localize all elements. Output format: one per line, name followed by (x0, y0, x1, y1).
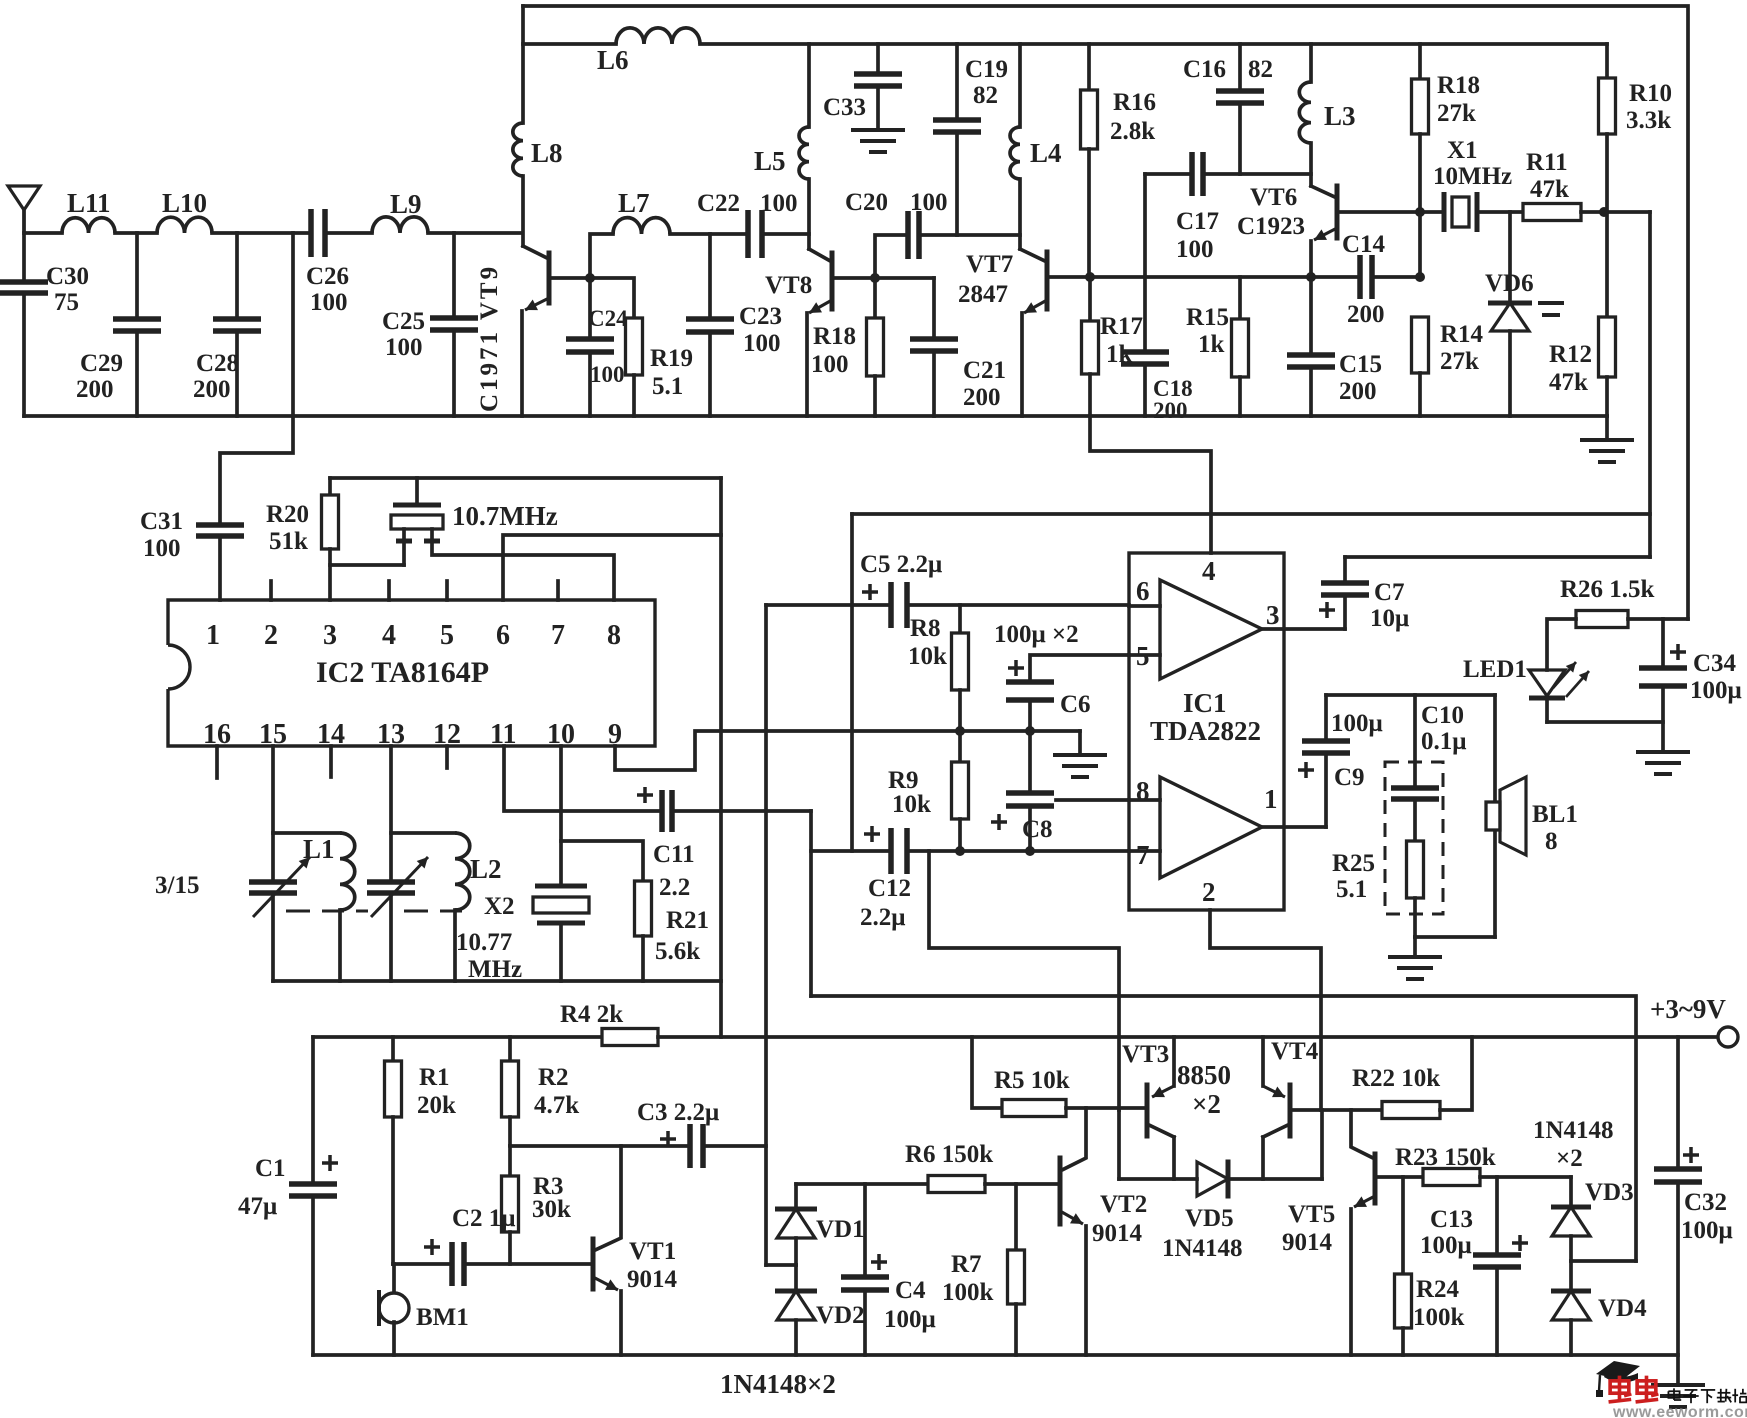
svg-text:LED1: LED1 (1463, 656, 1527, 683)
svg-text:R5 10k: R5 10k (994, 1067, 1070, 1094)
IC1 TDA2822 box (1129, 553, 1284, 910)
svg-text:10k: 10k (908, 643, 947, 670)
dashed box around C10/R25 (1385, 762, 1443, 914)
svg-text:R14: R14 (1440, 321, 1484, 348)
IC2 pin stubs bottom (nc) (215, 746, 219, 778)
svg-text:10.77: 10.77 (456, 929, 512, 956)
svg-text:C16: C16 (1183, 56, 1226, 83)
resistor R16 (1087, 44, 1091, 90)
inductor L9 (372, 217, 428, 233)
svg-text:82: 82 (1248, 56, 1273, 83)
svg-text:C8: C8 (1022, 816, 1053, 843)
wire: VT7 base bias line (1090, 275, 1311, 279)
svg-text:100: 100 (910, 189, 948, 216)
transistor VT8 (830, 253, 835, 309)
speaker BL1 (1493, 695, 1497, 937)
svg-text:10μ: 10μ (1370, 605, 1409, 632)
svg-text:R21: R21 (666, 907, 709, 934)
svg-text:4: 4 (1202, 556, 1216, 586)
capacitor C3 (690, 1124, 703, 1168)
wire: L7 branch (590, 234, 613, 278)
wire: long vertical from filter top (719, 478, 723, 1037)
capacitor C30 (22, 210, 26, 282)
svg-text:L4: L4 (1030, 138, 1062, 168)
svg-text:1N4148: 1N4148 (1533, 1117, 1614, 1144)
diode VD4 (1569, 1261, 1573, 1291)
svg-text:R10: R10 (1629, 80, 1672, 107)
svg-text:8850: 8850 (1177, 1060, 1231, 1090)
svg-text:L3: L3 (1324, 101, 1356, 131)
svg-text:C33: C33 (823, 94, 866, 121)
capacitor C18 (1143, 174, 1147, 352)
bottom ground rail (313, 1353, 1678, 1357)
svg-text:100: 100 (590, 362, 625, 387)
svg-text:4: 4 (382, 620, 396, 651)
svg-text:200: 200 (193, 376, 231, 403)
inductor L11 (62, 218, 115, 233)
svg-text:6: 6 (496, 620, 510, 651)
svg-text:30k: 30k (532, 1196, 571, 1223)
resistor R22 (1382, 1102, 1440, 1119)
svg-text:5: 5 (440, 620, 454, 651)
svg-text:100μ: 100μ (884, 1306, 936, 1333)
svg-text:C4: C4 (895, 1277, 926, 1304)
wire pin2 down to VT4 base (1210, 910, 1321, 1110)
resistor R6 (928, 1176, 985, 1193)
op-amp A (top) (1160, 580, 1262, 679)
capacitor C4 (863, 1184, 867, 1277)
svg-text:75: 75 (54, 289, 79, 316)
svg-text:8: 8 (1545, 828, 1558, 855)
svg-text:C7: C7 (1374, 579, 1405, 606)
svg-text:2.2μ: 2.2μ (860, 904, 905, 931)
svg-text:9014: 9014 (1282, 1229, 1333, 1256)
svg-text:R18: R18 (1437, 72, 1480, 99)
svg-text:R20: R20 (266, 501, 309, 528)
ceramic filter 10.7MHz (330, 476, 721, 480)
svg-text:C6: C6 (1060, 691, 1091, 718)
svg-text:2: 2 (264, 620, 278, 651)
svg-text:100μ: 100μ (1331, 710, 1383, 737)
svg-text:VD2: VD2 (816, 1302, 865, 1329)
svg-text:×2: ×2 (1556, 1145, 1583, 1172)
capacitor C21 (875, 276, 934, 280)
wire: clipper top line to R6 (796, 1182, 928, 1186)
svg-text:100k: 100k (1413, 1304, 1465, 1331)
resistor R10 (1605, 44, 1609, 78)
svg-text:C5 2.2μ: C5 2.2μ (860, 551, 942, 578)
svg-text:+3~9V: +3~9V (1650, 994, 1726, 1024)
svg-text:200: 200 (1153, 398, 1188, 423)
wire: pin9 net vertical (764, 605, 768, 1265)
capacitor C10 (1413, 695, 1417, 788)
ground rail of RF section (24, 414, 1607, 418)
svg-text:47μ: 47μ (238, 1193, 277, 1220)
resistor R5 (972, 1037, 1002, 1108)
svg-text:C29: C29 (80, 350, 123, 377)
wire: detector output to AF (1648, 212, 1652, 557)
svg-text:2: 2 (1202, 877, 1216, 907)
transistor VT1 (9014) (591, 1239, 596, 1289)
svg-text:1N4148: 1N4148 (1162, 1235, 1243, 1262)
svg-text:TDA2822: TDA2822 (1150, 716, 1261, 746)
svg-text:10.7MHz: 10.7MHz (452, 501, 558, 531)
svg-text:L8: L8 (531, 138, 563, 168)
svg-text:10k: 10k (892, 791, 931, 818)
svg-text:VD5: VD5 (1185, 1205, 1234, 1232)
svg-text:R18: R18 (813, 323, 856, 350)
resistor R25 (1413, 799, 1417, 841)
svg-text:100k: 100k (942, 1279, 994, 1306)
antenna (8, 186, 40, 233)
node VT9 base junction (585, 273, 595, 283)
wire: pin2 net / y996 line (811, 996, 1636, 1261)
wire pin8 stub (1056, 798, 1129, 802)
resistor R1 (391, 1037, 395, 1061)
resistor R7 (1014, 1184, 1018, 1250)
wire: pin9 net to clipper (766, 1263, 796, 1267)
svg-text:C11: C11 (653, 841, 695, 868)
wire: pin10 / crystal X2 column (559, 746, 563, 886)
svg-text:100μ: 100μ (1420, 1232, 1472, 1259)
svg-text:X2: X2 (484, 893, 515, 920)
IC2 pin stubs top (269, 581, 273, 600)
svg-text:L10: L10 (162, 188, 207, 218)
inductor L4 (1018, 44, 1022, 127)
transistor VT4 (8850) (1288, 1085, 1293, 1136)
svg-text:82: 82 (973, 82, 998, 109)
capacitor C20 (875, 235, 908, 278)
svg-text:VT7: VT7 (966, 251, 1013, 278)
svg-text:C1923: C1923 (1237, 213, 1305, 240)
svg-text:R9: R9 (888, 767, 919, 794)
inductor L8 (513, 123, 523, 176)
resistor R23 (1375, 1175, 1423, 1179)
resistor R14 (1412, 317, 1429, 373)
svg-text:R16: R16 (1113, 89, 1156, 116)
wire LED bottom to C34 (1547, 720, 1663, 724)
capacitor C12 (891, 828, 907, 874)
capacitor C29 (135, 233, 139, 319)
wire: main RF line (24, 231, 62, 235)
capacitor C22 (748, 210, 762, 258)
svg-text:200: 200 (963, 384, 1001, 411)
svg-text:C12: C12 (868, 875, 911, 902)
svg-text:MHz: MHz (468, 956, 522, 983)
svg-text:www.eeworm.com: www.eeworm.com (1612, 1404, 1747, 1418)
capacitor C15 (1309, 277, 1313, 355)
svg-text:IC2 TA8164P: IC2 TA8164P (316, 656, 489, 689)
svg-text:L5: L5 (754, 146, 786, 176)
wire L8 to VT9 collector (521, 176, 525, 246)
wire: C5 input line (766, 603, 891, 607)
svg-text:BL1: BL1 (1532, 801, 1578, 828)
wire: pin9 audio takeoff (615, 731, 1080, 770)
svg-text:R4 2k: R4 2k (560, 1001, 623, 1028)
svg-text:100: 100 (385, 334, 423, 361)
svg-text:C34: C34 (1693, 650, 1737, 677)
resistor R26 (1576, 611, 1628, 628)
resistor R18 (27k) (1418, 44, 1422, 79)
svg-text:C26: C26 (306, 263, 349, 290)
resistor R12 (1599, 317, 1616, 377)
wire: speaker net top (1326, 693, 1495, 697)
capacitor C24 (588, 278, 592, 339)
transistor VT3 (8850) (1145, 1085, 1150, 1136)
transistor VT5 (9014) (1373, 1154, 1378, 1203)
capacitor C25 (452, 233, 456, 318)
resistor R9 (958, 731, 962, 762)
wire: tank ground rail (273, 979, 721, 983)
svg-text:C10: C10 (1421, 702, 1464, 729)
resistor R8 (958, 605, 962, 633)
svg-text:R2: R2 (538, 1064, 569, 1091)
inductor L10 (157, 217, 212, 233)
tank L1 with trimmer (271, 746, 275, 882)
capacitor C5 (891, 582, 907, 628)
svg-text:R6 150k: R6 150k (905, 1141, 993, 1168)
wire: left branch with C1 (311, 1037, 315, 1184)
svg-text:VT2: VT2 (1100, 1191, 1147, 1218)
svg-text:C13: C13 (1430, 1206, 1473, 1233)
varactor VD6 (1508, 212, 1512, 303)
svg-text:C30: C30 (46, 263, 89, 290)
svg-text:R24: R24 (1416, 1276, 1460, 1303)
capacitor C8 (1028, 731, 1032, 793)
svg-text:R12: R12 (1549, 341, 1592, 368)
svg-text:VD1: VD1 (816, 1216, 865, 1243)
svg-text:2.8k: 2.8k (1110, 118, 1155, 145)
wire pin3 out to C7 (1262, 627, 1345, 631)
svg-text:47k: 47k (1530, 176, 1569, 203)
wire: pin11 to C11 line (504, 746, 662, 811)
svg-text:5.1: 5.1 (1336, 876, 1367, 903)
resistor R17 (1088, 277, 1092, 321)
svg-text:R11: R11 (1526, 149, 1568, 176)
svg-text:R23 150k: R23 150k (1395, 1144, 1496, 1171)
svg-text:3: 3 (323, 620, 337, 651)
svg-text:BM1: BM1 (416, 1304, 469, 1331)
transistor VT7 (2847) (1045, 252, 1050, 309)
resistor R15 (1238, 277, 1242, 319)
svg-text:51k: 51k (269, 528, 308, 555)
svg-text:VD3: VD3 (1585, 1179, 1634, 1206)
transistor VT9 (C1971) (547, 253, 552, 303)
inductor L3 (1309, 44, 1313, 82)
diode VD1 (794, 1184, 798, 1209)
capacitor C17 (1145, 172, 1192, 176)
wire: top supply rail (523, 6, 1688, 619)
wire pin1 out to C9 (1262, 825, 1326, 829)
svg-text:VD4: VD4 (1598, 1295, 1647, 1322)
svg-text:4.7k: 4.7k (534, 1092, 579, 1119)
svg-text:8: 8 (607, 620, 621, 651)
svg-text:5.1: 5.1 (652, 373, 683, 400)
svg-text:100: 100 (811, 351, 849, 378)
diode VD3 (1569, 1177, 1573, 1207)
capacitor C34 (1661, 619, 1665, 668)
svg-text:L2: L2 (470, 854, 502, 884)
resistor R21 (561, 841, 643, 881)
capacitor C16 (1238, 44, 1242, 91)
svg-text:VT4: VT4 (1271, 1038, 1319, 1065)
watermark site name (drawn glyphs) (1668, 1391, 1679, 1398)
ground at C6/C8 (1078, 731, 1082, 755)
LED LED1 (1547, 619, 1576, 670)
wire: pin6 loop (503, 535, 721, 600)
svg-text:VT6: VT6 (1250, 184, 1297, 211)
wire: VT4 base line to R22 (1290, 1108, 1382, 1112)
svg-text:R17: R17 (1100, 313, 1143, 340)
svg-text:C1: C1 (255, 1155, 286, 1182)
wire left jog to VT3 base (929, 851, 1119, 1110)
svg-text:1k: 1k (1198, 331, 1225, 358)
svg-text:3.3k: 3.3k (1626, 107, 1671, 134)
capacitor C9 (1324, 753, 1328, 827)
inductor L5 (807, 44, 811, 127)
svg-text:C23: C23 (739, 303, 782, 330)
svg-text:100: 100 (743, 330, 781, 357)
svg-text:100μ ×2: 100μ ×2 (994, 621, 1079, 648)
resistor R19 (590, 278, 634, 318)
svg-text:100μ: 100μ (1690, 677, 1742, 704)
svg-text:3: 3 (1266, 600, 1280, 630)
svg-text:C21: C21 (963, 357, 1006, 384)
svg-text:200: 200 (76, 376, 114, 403)
capacitor C32 (1676, 1037, 1680, 1169)
svg-text:100: 100 (1176, 236, 1214, 263)
svg-text:200: 200 (1339, 378, 1377, 405)
svg-text:100μ: 100μ (1681, 1217, 1733, 1244)
capacitor C19 (955, 44, 959, 120)
svg-text:R8: R8 (910, 615, 941, 642)
svg-text:20k: 20k (417, 1092, 456, 1119)
svg-text:2.2: 2.2 (659, 874, 690, 901)
wire L8 column (521, 6, 525, 123)
resistor R20 (328, 478, 332, 495)
capacitor C14 (1311, 275, 1360, 279)
wire bottom of R25 to BL1 and ground (1415, 935, 1495, 939)
capacitor C2 (452, 1242, 464, 1286)
resistor R11 (1523, 204, 1581, 221)
svg-text:7: 7 (1136, 840, 1150, 870)
crystal X2 10.77MHz (535, 884, 587, 889)
watermark red characters (drawn glyphs) (1610, 1381, 1629, 1393)
svg-text:47k: 47k (1549, 369, 1588, 396)
svg-text:C3 2.2μ: C3 2.2μ (637, 1099, 719, 1126)
svg-text:10MHz: 10MHz (1433, 163, 1512, 190)
svg-text:R26 1.5k: R26 1.5k (1560, 576, 1655, 603)
microphone BM1 (392, 1264, 396, 1294)
wire: VT1 base line (393, 1262, 452, 1266)
svg-text:R19: R19 (650, 345, 693, 372)
svg-text:R1: R1 (419, 1064, 450, 1091)
svg-text:27k: 27k (1437, 100, 1476, 127)
resistor R18 (100) (873, 278, 877, 318)
inductor L7 (613, 218, 670, 234)
power rail +3~9V (313, 1035, 602, 1039)
svg-text:R22 10k: R22 10k (1352, 1065, 1440, 1092)
tank L2 with trimmer (389, 746, 393, 882)
svg-text:200: 200 (1347, 301, 1385, 328)
wire: VD3/VD4 junction (1571, 1259, 1636, 1263)
diode VD5 line (1117, 1110, 1121, 1179)
crystal X1 10MHz (1420, 210, 1444, 214)
wire: IC1 pin4 supply jog (1090, 416, 1211, 553)
svg-text:9014: 9014 (1092, 1220, 1143, 1247)
svg-text:C25: C25 (382, 308, 425, 335)
wire: second rail y=44 (523, 42, 616, 46)
transistor VT6 (C1923) (1335, 186, 1340, 238)
resistor R4 (602, 1029, 658, 1046)
svg-text:C19: C19 (965, 56, 1008, 83)
svg-text:R7: R7 (951, 1251, 982, 1278)
inductor L6 (616, 28, 700, 44)
svg-text:L9: L9 (390, 189, 422, 219)
capacitor C26 (311, 209, 325, 257)
svg-text:2847: 2847 (958, 281, 1008, 308)
svg-text:3/15: 3/15 (155, 872, 199, 899)
wire: C31 tap from RF line (291, 233, 295, 416)
transistor VT2 (9014) (1058, 1158, 1063, 1224)
svg-text:×2: ×2 (1192, 1089, 1221, 1119)
wire: C12 riser (811, 811, 891, 851)
svg-text:L11: L11 (67, 188, 111, 218)
capacitor C28 (235, 233, 239, 319)
svg-text:VD6: VD6 (1485, 270, 1534, 297)
svg-text:R15: R15 (1186, 304, 1229, 331)
svg-text:C2 1μ: C2 1μ (452, 1205, 515, 1232)
svg-text:6: 6 (1136, 576, 1150, 606)
svg-text:C31: C31 (140, 508, 183, 535)
svg-text:L7: L7 (618, 188, 650, 218)
op-amp B (bottom) (1160, 777, 1262, 878)
resistor R24 (1401, 1177, 1405, 1274)
svg-text:5.6k: 5.6k (655, 938, 700, 965)
capacitor C11 (662, 790, 672, 832)
capacitor C7 (1343, 595, 1347, 629)
watermark graduation cap logo (1596, 1361, 1640, 1380)
svg-text:100: 100 (143, 535, 181, 562)
svg-text:C15: C15 (1339, 351, 1382, 378)
svg-text:X1: X1 (1447, 137, 1478, 164)
svg-text:1: 1 (206, 620, 220, 651)
svg-text:C24: C24 (588, 306, 628, 331)
svg-text:VT1: VT1 (629, 1238, 676, 1265)
svg-text:100: 100 (310, 289, 348, 316)
svg-text:VT5: VT5 (1288, 1201, 1335, 1228)
capacitor C23 (708, 234, 712, 319)
svg-text:C22: C22 (697, 190, 740, 217)
svg-text:7: 7 (551, 620, 565, 651)
svg-text:100: 100 (760, 190, 798, 217)
svg-text:C17: C17 (1176, 208, 1219, 235)
svg-text:R25: R25 (1332, 850, 1375, 877)
svg-text:VT8: VT8 (765, 272, 812, 299)
diode VD2 (794, 1265, 798, 1291)
capacitor C13 (1495, 1177, 1499, 1255)
svg-text:27k: 27k (1440, 348, 1479, 375)
resistor R3 (508, 1146, 512, 1176)
resistor R2 (508, 1037, 512, 1061)
capacitor C6 (1030, 655, 1129, 682)
wire: R2/R3/VT1 collector/C3 node (510, 1144, 686, 1148)
svg-text:VT3: VT3 (1122, 1041, 1169, 1068)
svg-text:C32: C32 (1684, 1189, 1727, 1216)
svg-text:C20: C20 (845, 189, 888, 216)
svg-text:C14: C14 (1342, 231, 1386, 258)
IC2 TA8164P box (168, 600, 655, 746)
